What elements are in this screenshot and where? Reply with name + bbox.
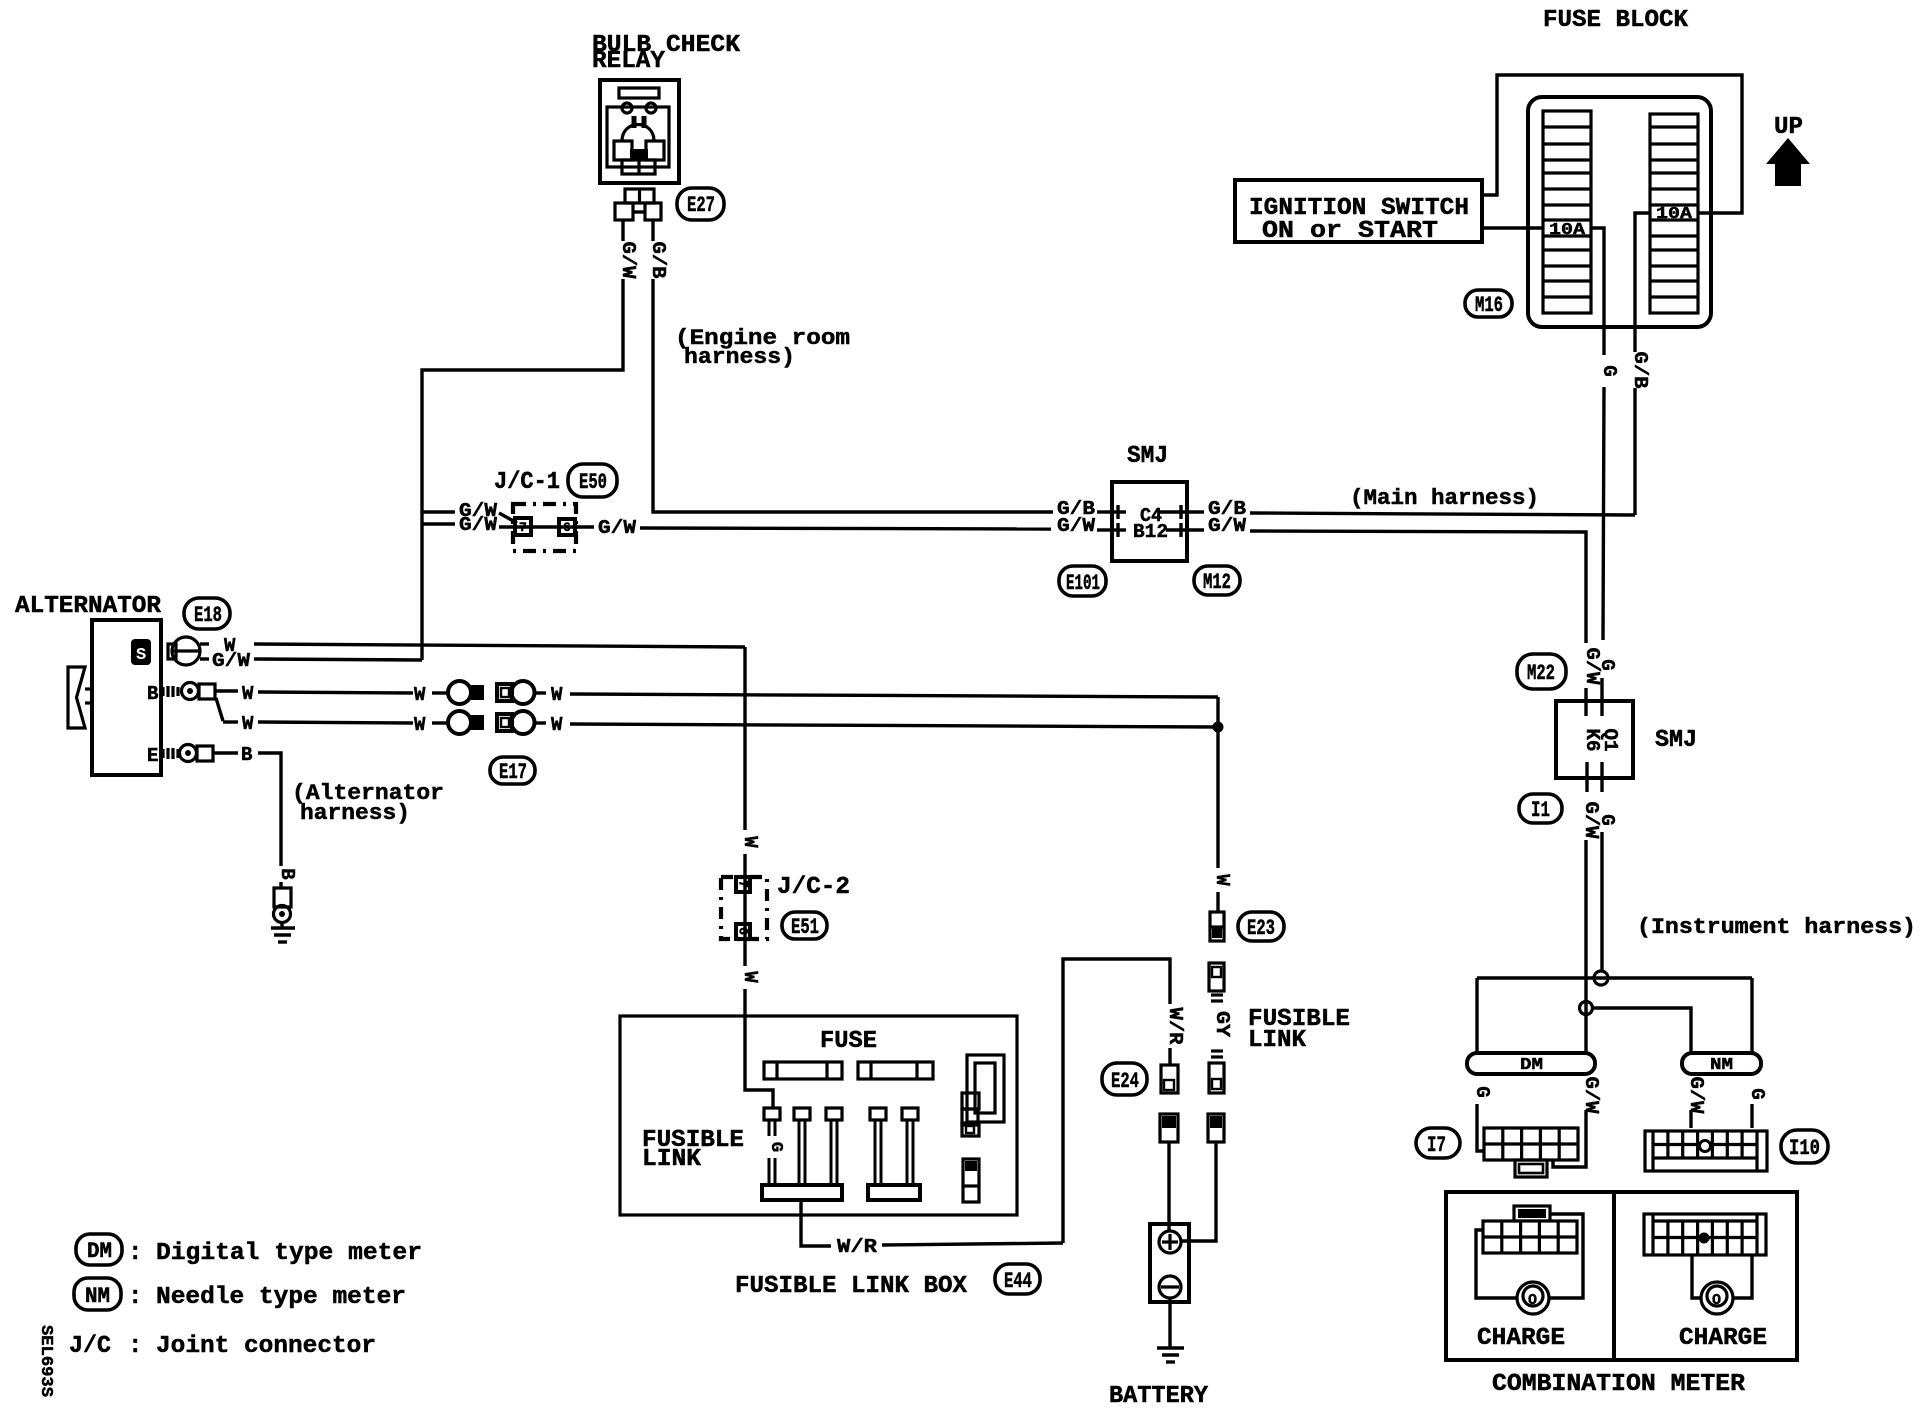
svg-text:G: G [1598, 365, 1620, 376]
oval I10 [1781, 1130, 1828, 1163]
connector E23 [1210, 912, 1224, 941]
oval I1 [1519, 794, 1562, 823]
svg-text:W/R: W/R [837, 1236, 878, 1258]
branch wire upper [1477, 976, 1752, 979]
fusible link pins group 2 [870, 1108, 886, 1120]
relay contacts [614, 141, 632, 160]
fusible link connector GY bottom [1209, 1063, 1224, 1093]
connector I10 [1645, 1131, 1767, 1171]
svg-text:CHARGE: CHARGE [1679, 1325, 1767, 1352]
svg-text:W: W [414, 684, 426, 706]
DM meter connector black plug [1514, 1206, 1550, 1221]
SMJ box Q1 K6 [1556, 701, 1633, 778]
svg-text:BATTERY: BATTERY [1109, 1383, 1209, 1410]
fuse block body [1528, 97, 1711, 327]
svg-text:harness): harness) [684, 345, 795, 370]
wire G/B SMJ to fuse block [1187, 510, 1204, 513]
svg-text:W: W [242, 713, 254, 735]
svg-text:W: W [551, 714, 563, 736]
battery ground [1168, 1298, 1171, 1348]
svg-text:O: O [1712, 1292, 1721, 1309]
junction dot W wires [1213, 722, 1224, 733]
svg-text:M16: M16 [1475, 293, 1503, 318]
wire W down to J/C-2 [743, 647, 746, 830]
svg-text:G/W: G/W [1581, 648, 1603, 686]
connector below E24 [1160, 1114, 1178, 1142]
oval E18 [184, 598, 230, 629]
connector I7 grid [1484, 1128, 1578, 1160]
oval E27 [677, 188, 724, 220]
svg-text:SMJ: SMJ [1127, 443, 1168, 470]
svg-text:B12: B12 [1133, 521, 1168, 543]
svg-text:G/W: G/W [617, 242, 639, 280]
svg-text:10A: 10A [1549, 221, 1586, 240]
svg-text:M22: M22 [1527, 661, 1555, 686]
legend DM oval [76, 1234, 122, 1265]
wire W/R out of box [801, 1200, 831, 1246]
svg-text:NM: NM [1710, 1056, 1733, 1075]
wire ignition to fuse block outer [1482, 75, 1742, 213]
svg-text:Joint connector: Joint connector [156, 1333, 376, 1360]
svg-text:NM: NM [85, 1284, 110, 1309]
svg-text:W: W [414, 714, 426, 736]
wire GY to battery [1182, 1142, 1216, 1241]
svg-text:G/W: G/W [598, 517, 637, 539]
svg-text:G/B: G/B [647, 242, 669, 279]
oval E17 [490, 757, 535, 784]
S terminal [131, 639, 151, 665]
wire G/W stub 1 [422, 510, 455, 513]
svg-text:G: G [1596, 814, 1618, 825]
DM charge gauge [1517, 1282, 1549, 1314]
relay E27 body [600, 80, 679, 183]
svg-text:W: W [551, 684, 563, 706]
svg-text:J/C-2: J/C-2 [777, 874, 850, 901]
svg-text:UP: UP [1774, 114, 1803, 141]
svg-text:E50: E50 [579, 470, 607, 495]
svg-text:M12: M12 [1203, 570, 1231, 595]
svg-text:6: 6 [736, 927, 751, 935]
svg-text:FUSE BLOCK: FUSE BLOCK [1543, 7, 1689, 34]
J/C-1 pin 7 [515, 518, 531, 535]
svg-text:J/C-1: J/C-1 [494, 469, 560, 496]
svg-text:W: W [242, 683, 254, 705]
svg-text:G/W: G/W [1057, 515, 1096, 537]
oval I7 [1416, 1128, 1460, 1158]
svg-text:Digital type meter: Digital type meter [156, 1240, 422, 1267]
svg-text:DM: DM [1520, 1056, 1543, 1075]
wire G/W stub 2 [422, 522, 455, 525]
svg-text:SEL693S: SEL693S [36, 1325, 55, 1397]
fusible link box [620, 1016, 1017, 1215]
wire through J/C-2 [743, 854, 746, 966]
right fuse ladder [1650, 114, 1698, 313]
svg-text:B: B [276, 868, 298, 879]
svg-text:10A: 10A [1656, 205, 1693, 224]
svg-text:FUSE: FUSE [820, 1028, 877, 1055]
oval E51 [782, 912, 827, 939]
connector E17 row2 [448, 711, 471, 734]
svg-text:G/W: G/W [212, 650, 251, 672]
svg-text:G: G [1746, 1088, 1768, 1099]
wire B from E terminal [213, 751, 238, 754]
J/C-2 pin 7 [736, 877, 750, 892]
svg-text:E44: E44 [1004, 1269, 1032, 1294]
svg-text:GY: GY [1211, 1011, 1233, 1038]
fuse 1 [764, 1062, 842, 1079]
J/C-2 pin 6 [736, 924, 750, 939]
branch verticals [1475, 978, 1478, 1053]
wire W/R to battery [1167, 1142, 1170, 1231]
svg-text:B: B [147, 683, 158, 705]
connector stack on loop [962, 1093, 979, 1109]
wire G/B from right fuse [1635, 213, 1650, 352]
svg-text:G/W: G/W [1208, 515, 1247, 537]
ground symbol [280, 922, 283, 928]
fusible link double bars [1211, 993, 1223, 996]
wire G from left fuse [1591, 228, 1604, 355]
DM pill [1467, 1053, 1595, 1074]
svg-text:E101: E101 [1066, 571, 1100, 596]
svg-text:harness): harness) [300, 801, 410, 826]
SMJ box C4 B12 [1112, 482, 1187, 561]
svg-text:LINK: LINK [642, 1146, 702, 1173]
svg-text:ON or START: ON or START [1262, 218, 1438, 245]
combination meter box [1446, 1192, 1797, 1360]
J/C-2 dashed box [721, 877, 767, 939]
svg-text:E27: E27 [687, 193, 715, 218]
pulley [68, 667, 85, 728]
DM meter grid [1483, 1221, 1577, 1253]
svg-text:DM: DM [87, 1239, 112, 1264]
svg-text:Needle type meter: Needle type meter [156, 1284, 406, 1311]
relay connector E27 [625, 189, 654, 203]
wire W row2 diagonal [216, 698, 223, 721]
wire W/R corner path [1063, 959, 1170, 1243]
svg-text:B: B [241, 744, 252, 766]
legend NM oval [74, 1278, 121, 1310]
oval M22 [1517, 654, 1566, 689]
svg-text:J/C: J/C [69, 1333, 111, 1360]
NM meter wires [1692, 1255, 1701, 1298]
svg-text:I7: I7 [1427, 1133, 1446, 1158]
svg-text:G/B: G/B [1629, 352, 1651, 389]
oval M16 [1465, 290, 1512, 317]
svg-text::: : [128, 1333, 142, 1360]
svg-text:G: G [1471, 1086, 1493, 1097]
svg-text:RELAY: RELAY [592, 48, 666, 75]
wire pin7 to pin6 [499, 525, 594, 528]
svg-text:G/W: G/W [1580, 1077, 1602, 1115]
connector below GY [1208, 1114, 1224, 1142]
svg-text:W: W [1211, 874, 1233, 886]
wire G down to junction [1600, 832, 1603, 971]
fusible link connector GY top [1209, 963, 1224, 991]
wire G/B from relay [651, 220, 654, 241]
svg-text:W: W [739, 836, 761, 848]
ignition switch box [1235, 180, 1482, 242]
svg-text:E: E [147, 745, 158, 767]
svg-text:G: G [766, 1142, 785, 1152]
svg-text:O: O [1528, 1292, 1537, 1309]
wire G/W SMJ to instrument [1187, 528, 1204, 531]
DM meter wires [1476, 1230, 1517, 1298]
oval E50 [568, 464, 617, 497]
svg-text:W: W [739, 971, 761, 983]
oval E44 [995, 1264, 1040, 1294]
alternator box [92, 620, 161, 775]
small connector lower right [963, 1159, 979, 1202]
NM meter connector [1644, 1214, 1766, 1255]
wire W row1 [215, 689, 238, 692]
oval E101 [1059, 566, 1106, 596]
oval E24 [1102, 1063, 1147, 1095]
J/C-1 dashed box [513, 504, 576, 551]
fusible link pins group 1 [764, 1108, 780, 1120]
svg-text:LINK: LINK [1248, 1027, 1307, 1054]
svg-text:G/W: G/W [1685, 1077, 1707, 1115]
battery [1150, 1224, 1189, 1302]
svg-text:W/R: W/R [1164, 1008, 1186, 1046]
oval E23 [1238, 912, 1284, 941]
left fuse ladder [1543, 111, 1591, 313]
svg-text:(Main harness): (Main harness) [1350, 486, 1539, 511]
svg-text:I1: I1 [1531, 798, 1550, 823]
NM charge gauge [1701, 1282, 1733, 1314]
svg-text:I10: I10 [1789, 1136, 1820, 1161]
svg-text:ALTERNATOR: ALTERNATOR [15, 593, 162, 620]
connector E24 [1161, 1065, 1178, 1093]
NM pill [1682, 1053, 1761, 1074]
fuse 2 [858, 1062, 933, 1079]
svg-text:(Instrument harness): (Instrument harness) [1637, 915, 1916, 940]
svg-text::: : [128, 1284, 142, 1311]
oval M12 [1194, 566, 1240, 595]
svg-text:SMJ: SMJ [1655, 727, 1697, 754]
svg-text:CHARGE: CHARGE [1477, 1325, 1565, 1352]
branch wire lower [1592, 1008, 1691, 1053]
wire G/W from relay [621, 220, 624, 241]
svg-text:E24: E24 [1111, 1069, 1139, 1094]
svg-text:S: S [136, 646, 146, 665]
svg-text:K6: K6 [1581, 729, 1603, 752]
svg-text:E17: E17 [499, 760, 527, 785]
svg-text:E18: E18 [194, 603, 222, 628]
wire G/W down [1584, 840, 1587, 1053]
relay coil [622, 125, 654, 142]
wire loop right [967, 1055, 1004, 1122]
connector E17 row1 [448, 681, 471, 704]
svg-text::: : [128, 1240, 142, 1267]
svg-text:E23: E23 [1247, 916, 1275, 941]
svg-text:FUSIBLE LINK BOX: FUSIBLE LINK BOX [735, 1273, 968, 1300]
S connector [172, 637, 200, 665]
wire ignition to left fuse [1482, 226, 1543, 229]
svg-text:7: 7 [736, 880, 751, 888]
J/C-1 pin 6 [559, 519, 575, 535]
SMJ pins bottom [1585, 762, 1588, 792]
svg-text:G/W: G/W [459, 514, 498, 536]
svg-text:COMBINATION METER: COMBINATION METER [1492, 1371, 1746, 1398]
svg-text:E51: E51 [791, 915, 819, 940]
